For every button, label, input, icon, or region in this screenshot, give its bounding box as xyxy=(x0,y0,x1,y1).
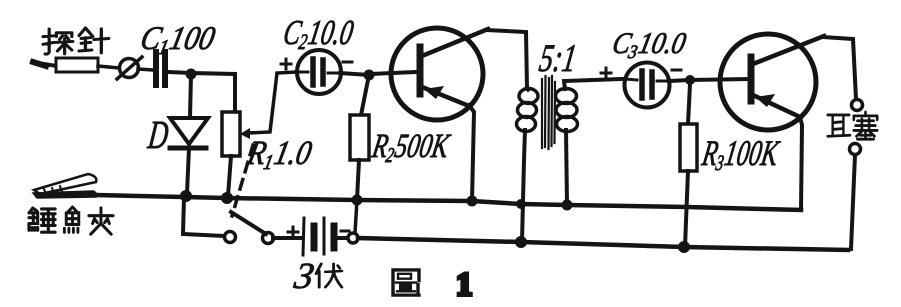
upper common rail (emitter rail) xyxy=(96,195,801,210)
wire node C to Q2 base xyxy=(690,79,748,80)
wire node B down to R2 xyxy=(361,75,369,115)
label 耳塞 xyxy=(828,112,878,139)
junction R2 line crossing rail xyxy=(352,195,363,206)
label 鱷魚夾 xyxy=(29,207,113,234)
alligator clip 鱷魚夾 xyxy=(33,174,97,198)
battery output terminal xyxy=(348,233,358,243)
resistor R1 xyxy=(222,112,240,196)
junction R3 to negative rail xyxy=(678,241,690,253)
wire C1 to node A xyxy=(168,72,192,73)
wire node C down to R3 xyxy=(688,84,690,124)
svg-text:1: 1 xyxy=(456,267,473,303)
wire lower terminal to negative rail xyxy=(851,155,855,249)
switch S1 xyxy=(225,212,303,244)
svg-text:R2500K: R2500K xyxy=(368,127,453,166)
diode D xyxy=(170,118,208,193)
wire node B to Q1 base xyxy=(369,72,417,74)
battery B1 3V xyxy=(303,218,348,255)
transistor Q2 xyxy=(720,34,824,130)
junction secondary to rail xyxy=(562,200,573,211)
label + of battery xyxy=(288,227,298,237)
junction R1 to rail xyxy=(221,192,233,204)
caption 圖 1 xyxy=(393,270,419,295)
label - of C3 xyxy=(672,69,681,72)
wire Q1 emitter down to rail xyxy=(469,105,474,201)
svg-text:C310.0: C310.0 xyxy=(609,27,689,62)
capacitor C2 (electrolytic) xyxy=(297,50,341,94)
R1 wiper arm to C2 xyxy=(240,72,297,139)
capacitor C3 (electrolytic) xyxy=(625,63,670,108)
junction primary to negative rail xyxy=(515,236,527,248)
transistor Q1 xyxy=(391,28,488,120)
svg-text:5:1: 5:1 xyxy=(537,38,580,81)
resistor R2 xyxy=(350,115,369,200)
primary winding xyxy=(519,89,538,104)
label - of battery xyxy=(341,230,349,233)
svg-text:C1100: C1100 xyxy=(137,20,219,59)
node A junction xyxy=(186,69,197,80)
switch S1 branch wire xyxy=(183,197,225,236)
label - of C2 xyxy=(343,61,352,64)
wire node A down to diode xyxy=(190,74,191,118)
svg-text:R3100K: R3100K xyxy=(698,132,783,175)
resistor R3 xyxy=(680,124,697,247)
transformer T1 5:1 xyxy=(517,76,624,242)
dashed gang line R1 to switch S1 xyxy=(232,145,253,216)
junction Q1 emitter to rail xyxy=(467,196,478,207)
label + of C2 xyxy=(281,59,291,69)
wire R2 bottom through rail to battery minus xyxy=(355,200,357,233)
wire C3 to node C xyxy=(669,80,690,81)
node C junction xyxy=(685,75,695,85)
svg-text:C210.0: C210.0 xyxy=(280,13,356,54)
earphone terminal upper xyxy=(852,100,863,111)
wire node A to R1 top xyxy=(191,73,235,112)
junction diode to rail xyxy=(180,190,192,202)
wire Q2 emitter down to rail xyxy=(800,117,802,210)
secondary winding xyxy=(556,89,577,104)
wire C2 to node B xyxy=(340,73,369,75)
probe 探針 xyxy=(33,58,119,72)
label 探針 xyxy=(43,28,109,54)
label + of C3 xyxy=(601,68,611,78)
wire Q1 collector to transformer primary xyxy=(486,30,527,88)
wire Q2 collector to earphone jack xyxy=(823,37,856,99)
phone plug J1 xyxy=(117,57,153,79)
node B junction xyxy=(364,70,375,81)
earphone terminal lower xyxy=(850,144,861,155)
lower negative rail xyxy=(358,238,848,250)
junction primary crossing rail xyxy=(516,199,526,209)
capacitor C1 xyxy=(156,52,165,85)
core laminations xyxy=(542,76,555,149)
svg-text:R11.0: R11.0 xyxy=(243,134,315,174)
